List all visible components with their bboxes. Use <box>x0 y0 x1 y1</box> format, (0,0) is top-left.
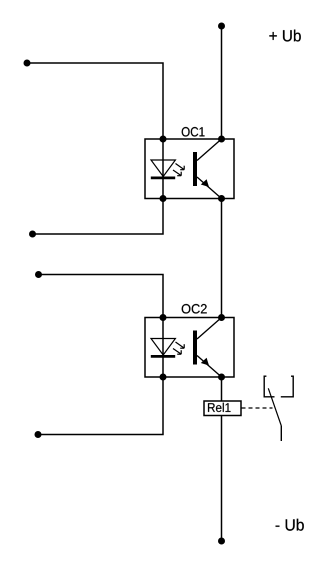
dashed mechanical link <box>242 407 273 409</box>
OC1 LED light arrow 2 <box>173 170 181 176</box>
relay coil Rel1 box <box>204 401 241 416</box>
OC2 phototransistor base bar <box>193 331 197 365</box>
relay contact right terminal bracket <box>281 376 293 397</box>
OC1 phototransistor base bar <box>193 152 197 186</box>
node +Ub terminal <box>218 23 225 30</box>
node IN2 <box>29 231 36 238</box>
OC2 emitter arrowhead <box>201 358 209 366</box>
OC2 LED triangle <box>151 339 175 356</box>
OC1 emitter arrowhead <box>201 179 209 187</box>
optocoupler OC2 box <box>145 318 234 378</box>
OC2 transistor collector <box>197 318 222 340</box>
relay contact arm lead <box>280 426 282 442</box>
optocoupler OC2 <box>145 314 234 381</box>
OC2 pin dots <box>160 314 167 321</box>
optocoupler OC1 box <box>145 139 234 199</box>
OC1 LED light arrow 1 <box>176 164 185 170</box>
wire Rel1 to -Ub terminal <box>221 416 223 542</box>
wire IN1 to OC1 anode <box>27 63 163 139</box>
relay contact movable arm <box>268 388 281 425</box>
node IN4 <box>35 431 42 438</box>
OC1 transistor emitter <box>197 177 222 199</box>
OC1 LED cathode bar <box>151 176 175 179</box>
OC1 pin dots <box>160 136 167 143</box>
node -Ub terminal <box>218 538 225 545</box>
label - Ub <box>276 519 304 531</box>
relay contact left terminal bracket <box>264 376 274 397</box>
node IN1 <box>24 60 31 67</box>
optocoupler OC1 <box>145 136 234 203</box>
OC1 LED triangle <box>151 160 175 177</box>
wire IN4 to OC2 cathode <box>38 377 163 435</box>
node IN3 <box>35 271 42 278</box>
OC1 transistor collector <box>197 139 222 161</box>
OC2 LED vertical wire <box>162 318 164 378</box>
wire OC1 emitter to OC2 collector <box>221 199 223 318</box>
label + Ub <box>269 30 300 42</box>
OC2 LED light arrow 1 <box>176 342 185 348</box>
wire +Ub to OC1 collector <box>221 26 223 139</box>
wire IN3 to OC2 anode <box>39 275 164 318</box>
OC2 LED cathode bar <box>151 355 175 358</box>
label Rel1 <box>208 403 231 412</box>
OC2 transistor emitter <box>197 356 222 378</box>
OC1 LED vertical wire <box>162 139 164 199</box>
wire IN2 to OC1 cathode <box>33 199 164 235</box>
OC2 LED light arrow 2 <box>173 349 181 355</box>
label OC1 <box>182 127 205 137</box>
wire OC2 emitter to Rel1 <box>221 377 223 401</box>
label OC2 <box>182 304 207 314</box>
